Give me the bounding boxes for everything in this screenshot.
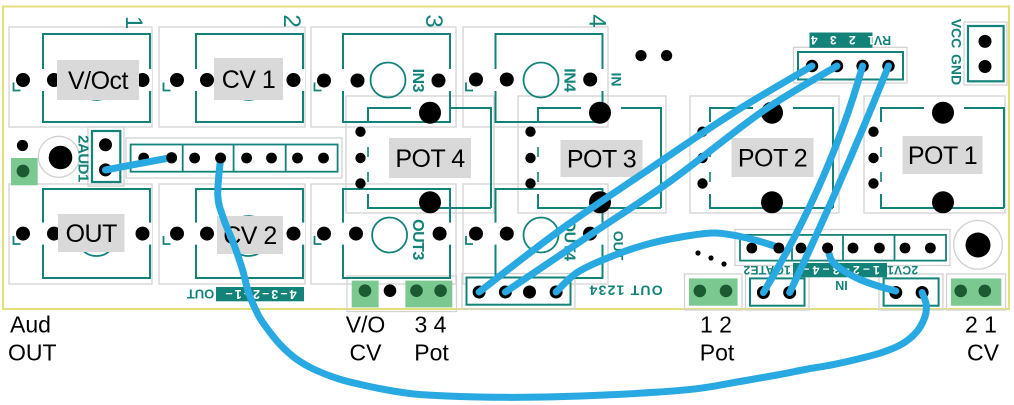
jack J1 barrel bbox=[38, 136, 79, 177]
module4 row1 pads bbox=[469, 73, 597, 87]
svg-text:OUT3: OUT3 bbox=[409, 219, 426, 260]
svg-text:Aud: Aud bbox=[10, 312, 51, 338]
svg-text:V/O: V/O bbox=[346, 312, 386, 338]
module 3 footprint (row1 IN3) bbox=[341, 34, 452, 122]
connector CV21 pads bbox=[889, 286, 928, 299]
band 4-3-2-1-OUT bbox=[216, 287, 304, 301]
svg-text:POT 2: POT 2 bbox=[738, 145, 807, 173]
corner mark L row1-3 bbox=[315, 83, 322, 91]
label box CV 2 bbox=[217, 216, 283, 254]
connector RV1 pads bbox=[806, 60, 895, 72]
wire 2AUD1 to strip bbox=[106, 158, 172, 171]
potentiometer POT 2 footprint bbox=[697, 102, 833, 214]
svg-text:IN3: IN3 bbox=[409, 69, 426, 93]
silk dots diagonal bbox=[695, 250, 726, 266]
connector OUT1234 pads bbox=[473, 286, 563, 299]
connection pads over wires bbox=[166, 152, 833, 253]
module 6 footprint (row2 CV 2) bbox=[194, 189, 305, 278]
svg-text:CV: CV bbox=[350, 340, 383, 366]
PCB board outline bbox=[3, 7, 1009, 310]
corner mark L row2-2 bbox=[164, 236, 171, 244]
module4 row2 pads bbox=[469, 227, 597, 241]
label box POT 2 bbox=[732, 138, 814, 177]
label box CV 1 bbox=[214, 58, 283, 100]
potentiometer POT 4 footprint bbox=[355, 102, 491, 214]
corner mark L row2-4 bbox=[466, 236, 473, 244]
svg-text:2 1: 2 1 bbox=[965, 312, 997, 338]
svg-text:3: 3 bbox=[420, 14, 447, 27]
svg-text:2: 2 bbox=[278, 14, 305, 27]
svg-text:VCC: VCC bbox=[949, 19, 965, 49]
potentiometer POT 3 footprint bbox=[525, 102, 661, 214]
svg-text:IN: IN bbox=[609, 73, 625, 87]
svg-text:RV: RV bbox=[873, 33, 891, 47]
connector VCC/GND pads bbox=[979, 35, 992, 73]
svg-text:CV 1: CV 1 bbox=[222, 66, 276, 94]
connector 2AUD1 pads bbox=[99, 138, 112, 176]
terminal green Pot12 bbox=[689, 278, 738, 305]
corner mark L row2-3 bbox=[315, 236, 322, 244]
corner mark L row1-1 bbox=[14, 83, 21, 91]
label box OUT bbox=[58, 214, 125, 252]
wire OUT4 to strip right bbox=[556, 233, 779, 292]
header strip left (8 pads) bbox=[131, 145, 338, 172]
svg-text:POT 4: POT 4 bbox=[395, 145, 465, 173]
connector RV1 box bbox=[798, 52, 903, 80]
label box POT 1 bbox=[903, 136, 983, 174]
module 1 footprint (row1 V/Oct) bbox=[41, 34, 152, 122]
potentiometer POT 1 footprint bbox=[868, 102, 1004, 214]
module1 row2 pads bbox=[16, 227, 150, 241]
module 8 footprint (row2 OUT4) bbox=[494, 189, 605, 278]
svg-text:POT 1: POT 1 bbox=[908, 142, 977, 170]
svg-text:POT 3: POT 3 bbox=[567, 146, 636, 174]
svg-text:OUT 1234: OUT 1234 bbox=[588, 283, 662, 299]
connector Pot12 box bbox=[750, 278, 805, 305]
module 2 footprint (row1 CV 1) bbox=[194, 34, 305, 122]
svg-text:GND: GND bbox=[949, 54, 965, 85]
wire strip to CV21 (long loop) bbox=[218, 158, 927, 397]
module1 row1 pads bbox=[16, 73, 150, 87]
svg-text:OUT: OUT bbox=[66, 220, 118, 248]
connector Pot12 pads bbox=[757, 286, 796, 299]
svg-text:1 2 3 4: 1 2 3 4 bbox=[806, 33, 874, 47]
spare pads top bbox=[635, 50, 672, 61]
module2 row2 pads bbox=[170, 227, 301, 241]
svg-text:4: 4 bbox=[584, 14, 611, 27]
terminal green V/O-CV bbox=[352, 281, 453, 308]
corner mark L row1-2 bbox=[164, 83, 171, 91]
wire RV4 to Pot12-2 bbox=[790, 66, 889, 293]
label RV1 band bbox=[810, 33, 873, 48]
header strip right (8 pads) bbox=[740, 235, 946, 261]
label box V/Oct bbox=[57, 60, 139, 100]
module 7 footprint (row2 OUT3) bbox=[341, 189, 452, 278]
wire strip to CV21 pad1 bbox=[828, 248, 896, 291]
svg-text:OUT: OUT bbox=[187, 287, 215, 302]
jack J1 pin bbox=[49, 146, 73, 170]
silkscreen module outlines (faint) bbox=[9, 22, 1007, 312]
svg-text:1: 1 bbox=[120, 16, 147, 29]
jack J2 pin bbox=[966, 233, 991, 258]
module3 row1 pads bbox=[317, 74, 446, 88]
svg-text:2CV1: 2CV1 bbox=[887, 263, 918, 277]
module3 row2 pads bbox=[317, 227, 447, 241]
corner mark L row2-1 bbox=[14, 236, 21, 244]
terminal green CV21 bbox=[951, 278, 1001, 305]
svg-text:V/Oct: V/Oct bbox=[68, 67, 129, 95]
module 4 footprint (row1 IN4) bbox=[494, 34, 605, 122]
svg-text:2AUD1: 2AUD1 bbox=[74, 135, 91, 182]
connector CV21 box bbox=[884, 278, 939, 305]
svg-text:Pot: Pot bbox=[700, 340, 735, 366]
jack J2 barrel bbox=[954, 221, 1003, 270]
green mount pad G1 bbox=[11, 158, 38, 185]
wire OUT2 to RV2 bbox=[505, 66, 837, 292]
wire RV3 to Pot12-1 bbox=[763, 66, 862, 293]
label box POT 4 bbox=[389, 138, 471, 178]
connector OUT1234 box bbox=[467, 278, 571, 305]
band 1-2-3-4 bbox=[793, 263, 887, 277]
svg-text:1GATE2: 1GATE2 bbox=[743, 263, 791, 277]
label box POT 3 bbox=[561, 140, 643, 177]
wire OUT1 to RV1 bbox=[479, 66, 812, 292]
svg-text:OUT: OUT bbox=[8, 340, 57, 366]
connector VCC/GND box bbox=[968, 26, 1004, 81]
svg-text:CV: CV bbox=[967, 340, 1000, 366]
connector 2AUD1 box bbox=[92, 131, 120, 182]
module 5 footprint (row2 OUT) bbox=[41, 189, 152, 278]
svg-text:4–3–2–1–: 4–3–2–1– bbox=[223, 287, 296, 301]
svg-text:IN: IN bbox=[835, 278, 848, 292]
svg-text:3 4: 3 4 bbox=[415, 312, 447, 338]
svg-text:Pot: Pot bbox=[414, 340, 449, 366]
jack J1 side pad bbox=[17, 140, 28, 151]
module2 row1 pads bbox=[170, 73, 301, 87]
corner mark L row1-4 bbox=[466, 83, 473, 91]
svg-text:IN4: IN4 bbox=[560, 68, 577, 92]
svg-text:1 2: 1 2 bbox=[700, 312, 732, 338]
